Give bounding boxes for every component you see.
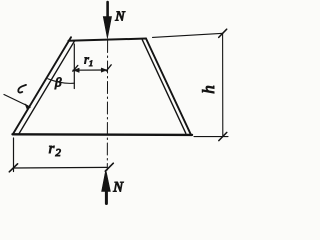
force arrow N bottom: head (102, 170, 111, 192)
centerline (dash-dot axis) (106, 41, 108, 171)
r1 right oblique tick (106, 65, 111, 71)
cone top edge (69, 39, 147, 41)
force arrow N top: shaft (106, 2, 109, 18)
force arrow N top: head (103, 17, 111, 39)
right wall inner line (142, 40, 186, 134)
r2 dimension line (14, 166, 108, 169)
h dimension line (222, 33, 224, 136)
cone bottom edge (13, 133, 193, 136)
left wall inner line (19, 41, 74, 133)
left wall outer line (13, 37, 71, 133)
h top oblique tick (219, 29, 227, 37)
wall thickness leader line (4, 95, 30, 108)
svg-text:N: N (112, 179, 124, 195)
r2 left oblique tick (9, 164, 17, 172)
r1 left arrowhead (74, 68, 80, 72)
r2 left extension line (13, 138, 15, 172)
h top reference line (153, 33, 224, 37)
r1 extension line (vertical leg of angle) (73, 44, 75, 89)
r1 dimension line (73, 69, 107, 71)
r2 right oblique tick at centerline (105, 163, 113, 171)
beta angle arc (48, 79, 75, 84)
h bottom oblique tick (219, 132, 227, 140)
right wall outer line (146, 39, 191, 134)
svg-text:h: h (199, 85, 218, 94)
force arrow N bottom: shaft (105, 190, 108, 204)
svg-text:β: β (54, 75, 62, 90)
leader arrowhead on wall (25, 104, 31, 109)
r1 right arrowhead (101, 68, 107, 72)
label t (hand-drawn glyph) (18, 85, 26, 93)
h bottom reference line (194, 136, 228, 138)
svg-text:N: N (114, 9, 125, 24)
r1 left oblique tick (73, 65, 78, 71)
